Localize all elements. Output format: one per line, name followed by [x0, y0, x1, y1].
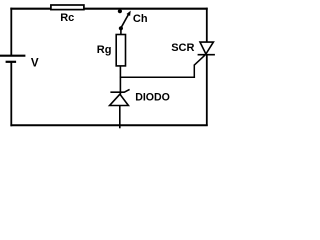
wire bottom rail: [10, 124, 207, 126]
diode DIODO: [110, 89, 130, 105]
battery V: [0, 56, 25, 62]
svg-text:DIODO: DIODO: [135, 91, 170, 103]
wire left rail upper: [10, 8, 12, 56]
wire switch to Rg stem: [120, 28, 122, 34]
svg-text:V: V: [31, 56, 39, 69]
svg-text:Rg: Rg: [97, 44, 112, 56]
svg-text:Rc: Rc: [60, 12, 74, 24]
SCR thyristor: [198, 42, 215, 55]
wire left rail lower: [10, 62, 12, 126]
svg-text:Ch: Ch: [133, 13, 148, 25]
wire top rail: [10, 8, 207, 10]
wire right rail upper (SCR anode lead): [206, 8, 208, 42]
switch Ch blade: [121, 14, 128, 27]
wire Rg to diode stem: [119, 67, 121, 95]
resistor Rg: [116, 35, 125, 66]
switch Ch lower contact dot: [119, 26, 123, 30]
node junction dot on top rail: [118, 9, 122, 13]
wire gate diagonal to SCR cathode: [194, 55, 205, 65]
wire right rail lower (SCR cathode lead): [206, 55, 208, 126]
wire gate horizontal: [120, 76, 195, 78]
switch Ch arrowhead: [127, 11, 131, 16]
resistor Rc: [51, 5, 84, 10]
svg-text:SCR: SCR: [171, 42, 194, 54]
wire diode to bottom rail: [119, 106, 121, 129]
wire gate vertical riser: [193, 65, 195, 78]
